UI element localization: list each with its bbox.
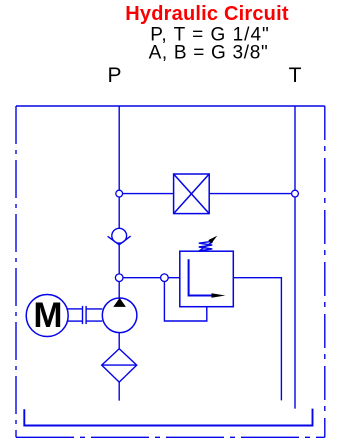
svg-text:Hydraulic Circuit: Hydraulic Circuit — [125, 3, 289, 25]
svg-text:P: P — [107, 64, 121, 87]
svg-text:A, B = G 3/8": A, B = G 3/8" — [149, 43, 269, 64]
svg-text:T: T — [289, 64, 302, 87]
svg-text:M: M — [33, 296, 62, 335]
